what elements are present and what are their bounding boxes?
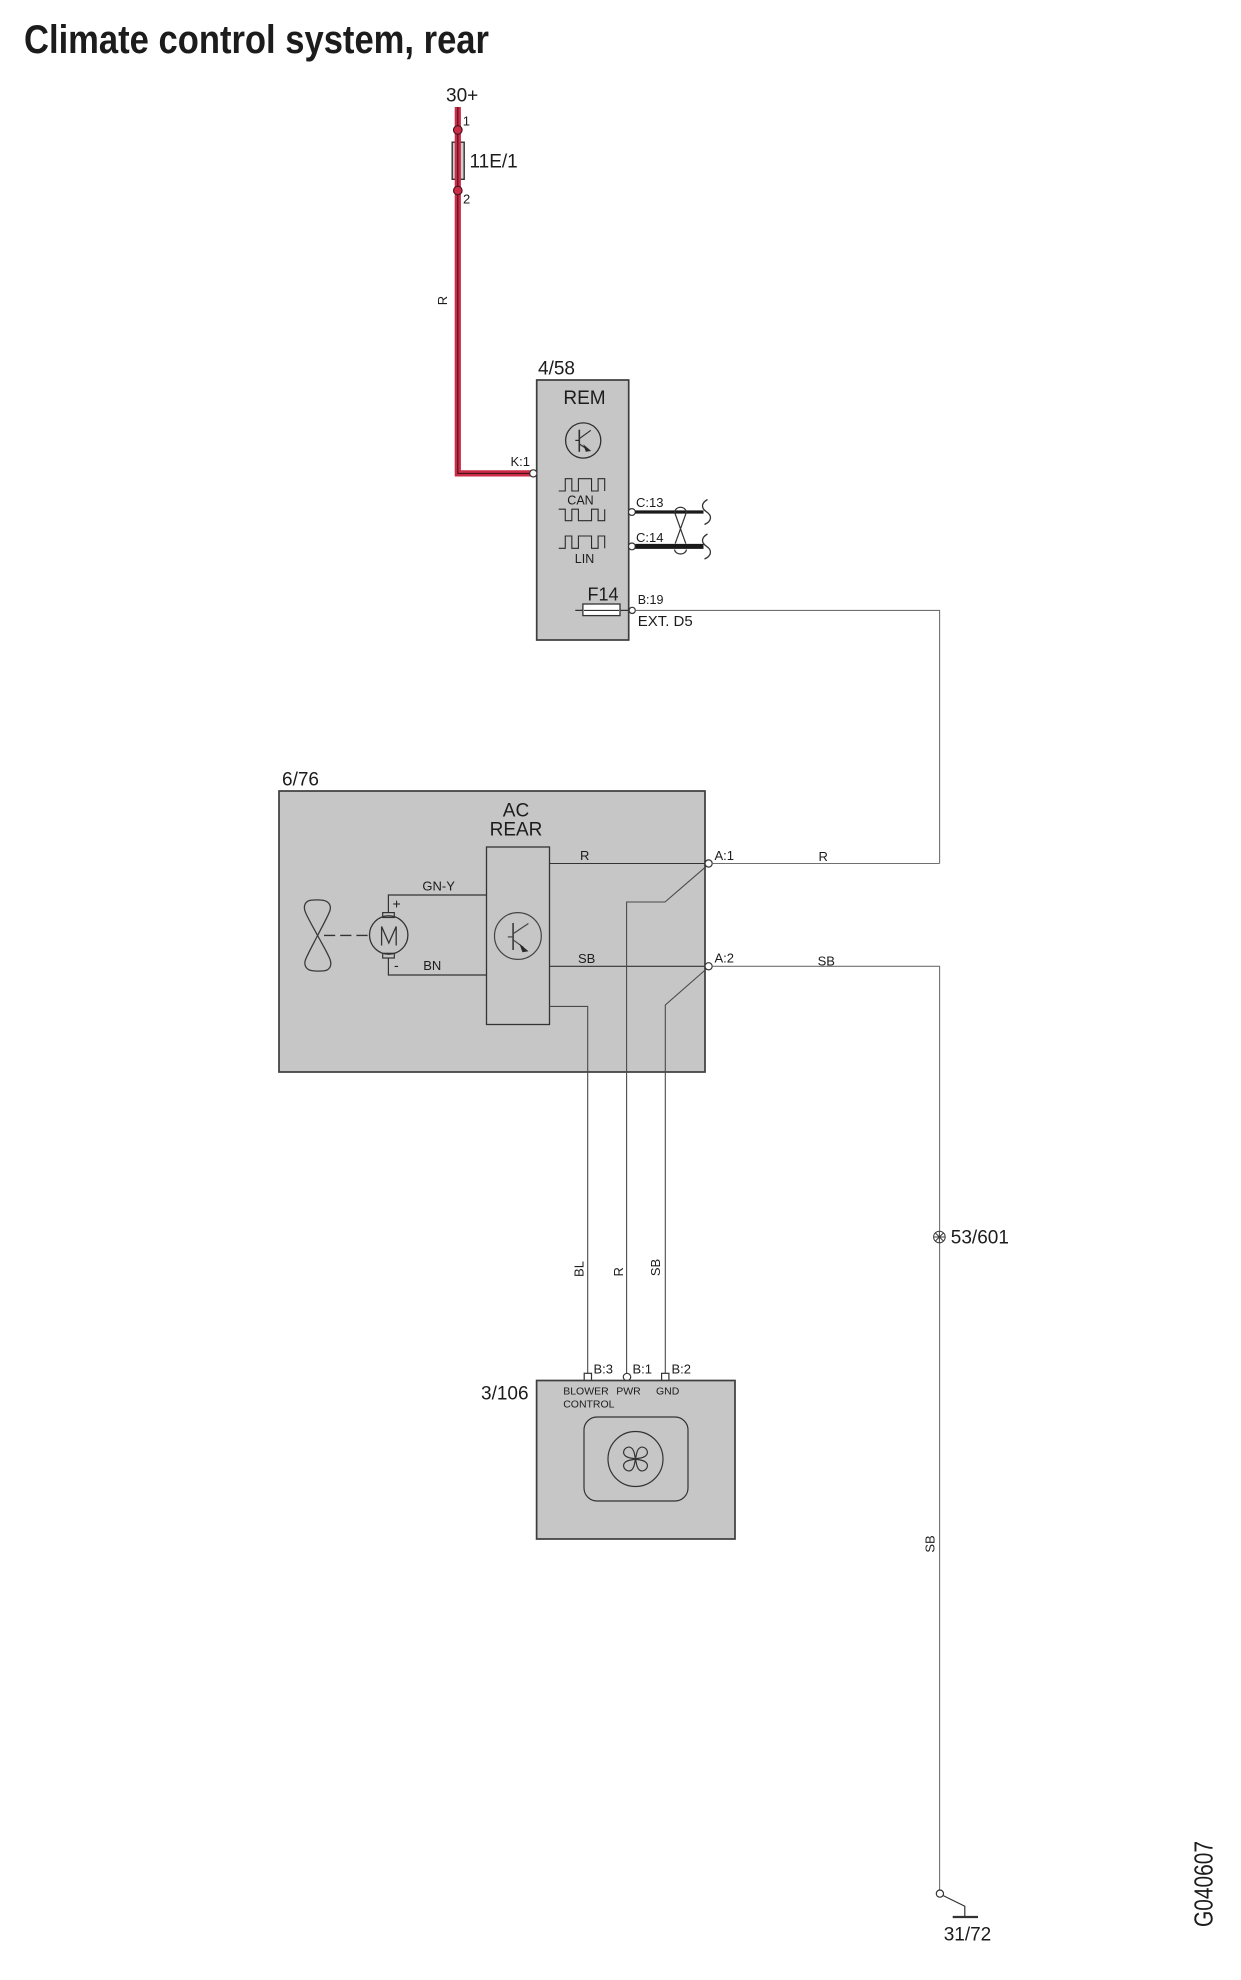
svg-text:2: 2 (463, 192, 470, 207)
fuse F14 (575, 585, 628, 616)
svg-text:B:3: B:3 (594, 1362, 614, 1377)
wire GN-Y motor plus (388, 895, 486, 913)
svg-text:R: R (611, 1267, 626, 1276)
svg-text:R: R (435, 296, 450, 305)
svg-text:1: 1 (463, 114, 470, 129)
svg-text:SB: SB (578, 951, 595, 966)
svg-text:AC: AC (503, 801, 529, 822)
wire R internal A:1 to B:1 (627, 865, 708, 1373)
svg-text:R: R (819, 849, 828, 864)
node 1 (454, 126, 463, 135)
svg-text:3/106: 3/106 (481, 1384, 529, 1405)
svg-text:CONTROL: CONTROL (563, 1399, 614, 1411)
svg-text:4/58: 4/58 (538, 359, 575, 380)
svg-text:11E/1: 11E/1 (470, 152, 518, 173)
wire LIN thick C:14 (635, 544, 703, 549)
wire R inner to A:1 (550, 863, 706, 865)
motor M (370, 913, 408, 958)
svg-text:PWR: PWR (616, 1386, 641, 1398)
svg-text:GN-Y: GN-Y (422, 879, 455, 894)
dashed shaft wire (324, 934, 370, 936)
svg-text:SB: SB (923, 1535, 938, 1552)
transistor symbol in AC REAR (495, 913, 542, 960)
blower knob rounded rect (584, 1417, 688, 1501)
component 4/58 REM box (537, 380, 629, 640)
svg-text:REM: REM (563, 388, 605, 409)
svg-text:BLOWER: BLOWER (563, 1386, 609, 1398)
wire BL inner to B:3 (550, 1006, 588, 1373)
inner module rect (487, 847, 550, 1025)
svg-text:-: - (394, 957, 399, 973)
svg-text:G040607: G040607 (1189, 1841, 1219, 1927)
splice 53/601 (934, 1231, 946, 1243)
wire continuation S-curve C:13 (703, 500, 711, 525)
svg-text:F14: F14 (588, 585, 619, 605)
twisted pair symbol (675, 507, 687, 554)
pin B:2 (662, 1373, 669, 1380)
svg-text:B:19: B:19 (638, 593, 664, 607)
svg-text:6/76: 6/76 (282, 770, 319, 791)
svg-text:BN: BN (423, 958, 441, 973)
wire SB external A:2 to ground (712, 966, 939, 1890)
svg-text:B:1: B:1 (633, 1362, 653, 1377)
svg-text:53/601: 53/601 (951, 1228, 1009, 1249)
svg-text:SB: SB (648, 1259, 663, 1276)
component 6/76 box AC REAR (279, 791, 705, 1072)
pin C:14 (629, 543, 636, 550)
ground 31/72 (936, 1890, 978, 1917)
svg-text:K:1: K:1 (510, 454, 530, 469)
svg-text:LIN: LIN (575, 552, 594, 566)
svg-text:A:1: A:1 (715, 848, 735, 863)
wire B:19 to A:1 net R (635, 610, 939, 863)
blower knob circle (608, 1432, 663, 1487)
wire continuation S-curve C:14 (703, 534, 711, 559)
wire CAN thick C:13 (635, 510, 703, 513)
svg-text:BL: BL (572, 1261, 587, 1277)
svg-text:EXT. D5: EXT. D5 (638, 613, 693, 630)
pin K:1 (530, 470, 537, 477)
node 2 (454, 186, 463, 195)
svg-text:+: + (393, 896, 401, 912)
pin C:13 (629, 509, 636, 516)
wire R red from 30+ to K:1 (458, 107, 532, 473)
fan propeller symbol (304, 900, 330, 971)
svg-text:C:13: C:13 (636, 495, 663, 510)
svg-text:SB: SB (818, 954, 835, 969)
pin B:1 (623, 1373, 630, 1380)
wire BN motor minus (388, 958, 486, 975)
pin A:2 (705, 963, 712, 970)
svg-text:C:14: C:14 (636, 530, 663, 545)
wire SB inner to A:2 (550, 965, 706, 967)
blower fan clover (622, 1445, 650, 1473)
svg-text:CAN: CAN (567, 493, 593, 507)
svg-text:REAR: REAR (490, 820, 543, 841)
svg-text:GND: GND (656, 1386, 680, 1398)
svg-text:R: R (580, 848, 589, 863)
svg-text:A:2: A:2 (715, 951, 735, 966)
fuse 11E/1 (452, 142, 518, 179)
wire R external A:1 (712, 863, 939, 865)
LIN waveform symbol (559, 536, 605, 548)
pin A:1 (705, 860, 712, 867)
svg-text:31/72: 31/72 (944, 1925, 992, 1946)
svg-text:30+: 30+ (446, 86, 478, 107)
pin B:19 (629, 607, 635, 613)
svg-text:Climate control system, rear: Climate control system, rear (24, 18, 489, 62)
component 3/106 box blower control (537, 1381, 735, 1540)
wire SB internal A:2 to B:2 (665, 968, 707, 1373)
pin B:3 (584, 1373, 591, 1380)
CAN waveform symbol (559, 479, 605, 521)
svg-text:B:2: B:2 (672, 1362, 692, 1377)
transistor symbol in REM (566, 423, 601, 458)
